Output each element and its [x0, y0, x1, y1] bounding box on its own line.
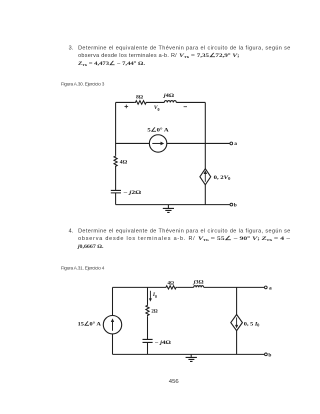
terminal a node c2 [264, 286, 267, 289]
svg-text:2Ω: 2Ω [151, 308, 158, 314]
wire middle branch bottom c2 [147, 342, 149, 354]
wire right vertical upper c2 [236, 287, 238, 314]
wire right vertical upper [204, 102, 206, 168]
resistor R 8ohm (top) [134, 101, 147, 105]
svg-text:5∠0° A: 5∠0° A [147, 127, 168, 134]
wire right vertical lower [204, 185, 206, 205]
wire left vertical upper [115, 102, 117, 155]
svg-text:observa desde los terminales a: observa desde los terminales a-b. R/ [78, 53, 177, 59]
wire right vertical lower c2 [236, 331, 238, 355]
svg-text:− j2Ω: − j2Ω [123, 190, 142, 196]
wire top segment 1 [113, 286, 166, 288]
resistor R 4ohm (left) [114, 155, 117, 167]
current source I 5A circle [149, 135, 166, 152]
minus sign of Vo [184, 106, 187, 108]
dependent source 0.2Vo arrow [204, 173, 206, 181]
svg-text:j4Ω: j4Ω [163, 93, 175, 99]
svg-text:4Ω: 4Ω [120, 159, 128, 165]
wire top-right segment [176, 101, 205, 103]
svg-text:456: 456 [169, 379, 179, 385]
wire middle right of source to terminal a [167, 142, 230, 144]
wire between R8 and L j4 [148, 101, 165, 103]
svg-text:Determine el equivalente de Th: Determine el equivalente de Thévenin par… [78, 45, 290, 51]
inductor L j3ohm (top) [194, 286, 204, 288]
resistor R 4ohm (top) [165, 286, 177, 289]
svg-text:j3Ω: j3Ω [192, 279, 204, 285]
svg-text:15∠0° A: 15∠0° A [78, 320, 101, 327]
capacitor C -j4ohm plates [143, 339, 153, 342]
inductor L j4ohm (top) [164, 101, 176, 103]
dependent source 0.5Io diamond [231, 315, 243, 331]
wire left vertical upper c2 [112, 287, 114, 315]
svg-text:j0,6667 Ω.: j0,6667 Ω. [77, 244, 104, 250]
wire middle branch center c2 [147, 316, 149, 339]
wire middle left of source [116, 142, 150, 144]
wire left vertical lower c2 [112, 334, 114, 354]
wire top segment 3 to terminal a [204, 286, 265, 288]
svg-text:− j4Ω: − j4Ω [155, 340, 172, 346]
svg-text:0, 2V0: 0, 2V0 [214, 175, 231, 181]
terminal a node [230, 142, 233, 145]
current source I 5A arrow [152, 142, 161, 144]
wire bottom to terminal b [116, 204, 231, 206]
svg-text:observa desde los terminales a: observa desde los terminales a-b. R/ [78, 236, 195, 242]
svg-text:I0: I0 [152, 292, 157, 299]
resistor R 2ohm (middle) [146, 304, 149, 316]
dependent source 0.5Io arrow [236, 318, 238, 326]
ground circuit 2 [186, 354, 197, 361]
svg-text:a: a [269, 285, 272, 291]
svg-text:4Ω: 4Ω [168, 281, 175, 287]
svg-text:ZTh = 4,473∠ − 7,44° Ω.: ZTh = 4,473∠ − 7,44° Ω. [77, 60, 146, 67]
wire top segment 2 [177, 286, 193, 288]
current source 15A circle [103, 316, 121, 334]
svg-text:0, 5 I0: 0, 5 I0 [244, 321, 260, 327]
wire middle branch top c2 [147, 287, 149, 304]
svg-text:Figura A.30. Ejercicio 3: Figura A.30. Ejercicio 3 [61, 82, 105, 87]
svg-text:3.: 3. [69, 45, 74, 51]
svg-text:b: b [234, 202, 237, 208]
wire left vertical lower [115, 193, 117, 205]
svg-text:a: a [234, 141, 237, 147]
plus sign of Vo [125, 105, 129, 109]
wire bottom c2 to terminal b [113, 353, 265, 355]
current source 15A arrow [112, 321, 114, 331]
ground circuit 1 [163, 205, 174, 213]
current Io arrow [149, 291, 151, 300]
svg-text:8Ω: 8Ω [136, 94, 144, 100]
wire top-left segment [116, 101, 135, 103]
svg-text:VTh = 55∠ − 90° V; ZTh = 4 −: VTh = 55∠ − 90° V; ZTh = 4 − [198, 235, 290, 242]
svg-text:Figura A.31. Ejercicio 4: Figura A.31. Ejercicio 4 [61, 266, 105, 271]
svg-text:Determine el equivalente de Th: Determine el equivalente de Thévenin par… [78, 228, 290, 234]
terminal b node c2 [265, 353, 268, 356]
svg-text:b: b [268, 353, 271, 359]
wire left vertical middle [115, 167, 117, 190]
dependent source 0.2Vo diamond [200, 169, 211, 185]
svg-text:VTh = 7,35∠72,9° V;: VTh = 7,35∠72,9° V; [179, 52, 240, 59]
capacitor C -j2ohm plates [111, 190, 121, 192]
svg-text:4.: 4. [69, 228, 74, 234]
svg-text:V0: V0 [154, 105, 160, 112]
terminal b node [230, 203, 233, 206]
